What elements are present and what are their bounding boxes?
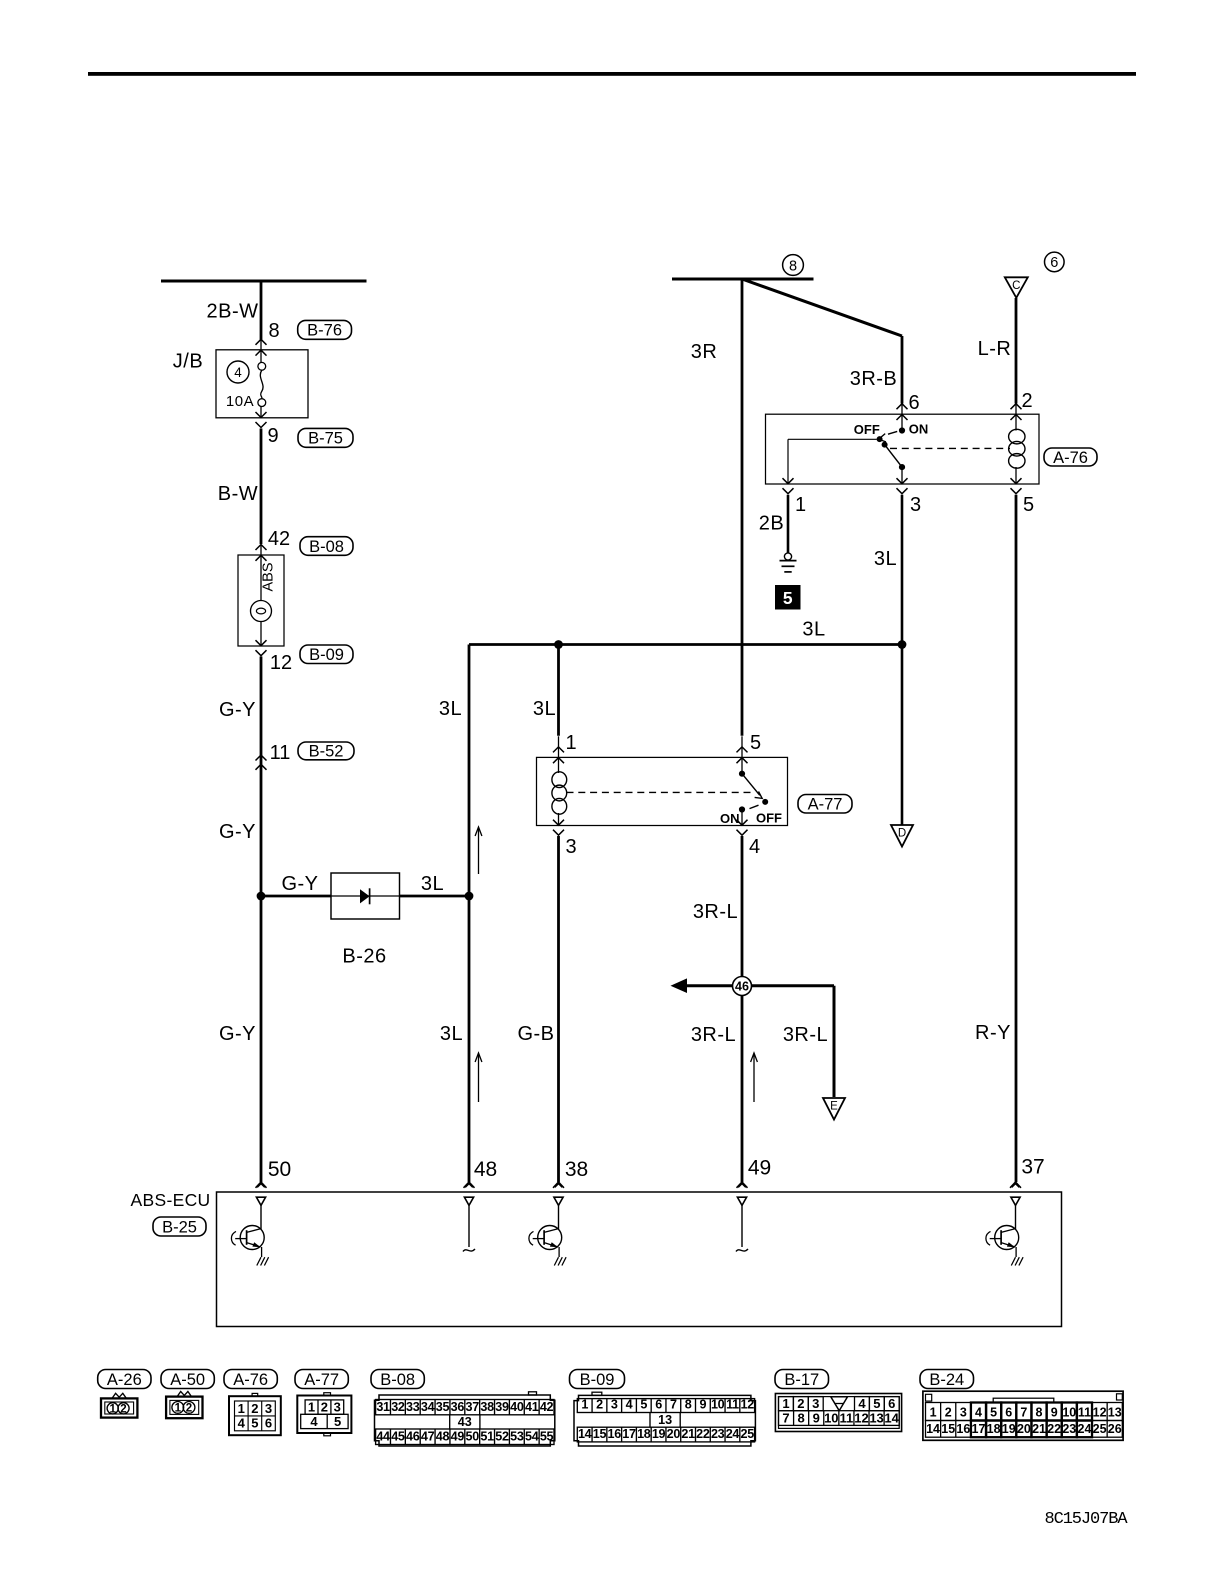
svg-text:B-09: B-09 — [580, 1371, 615, 1389]
svg-text:5: 5 — [1023, 494, 1034, 516]
svg-text:3: 3 — [565, 836, 576, 858]
svg-text:3L: 3L — [874, 548, 897, 570]
svg-text:B-08: B-08 — [380, 1371, 415, 1389]
svg-text:E: E — [830, 1101, 838, 1113]
svg-text:41: 41 — [525, 1400, 539, 1414]
svg-text:13: 13 — [1108, 1405, 1122, 1419]
svg-text:B-25: B-25 — [162, 1218, 197, 1236]
svg-text:3R-L: 3R-L — [691, 1024, 736, 1046]
svg-text:15: 15 — [941, 1422, 955, 1436]
svg-text:38: 38 — [480, 1400, 494, 1414]
svg-text:36: 36 — [451, 1400, 465, 1414]
svg-text:R-Y: R-Y — [975, 1022, 1011, 1044]
svg-text:2B: 2B — [759, 513, 784, 535]
svg-text:22: 22 — [1047, 1422, 1061, 1436]
svg-text:B-17: B-17 — [784, 1371, 819, 1389]
svg-text:L-R: L-R — [978, 338, 1012, 360]
svg-text:5: 5 — [873, 1396, 880, 1411]
svg-text:B-26: B-26 — [342, 946, 386, 968]
svg-text:11: 11 — [840, 1410, 854, 1425]
svg-text:4: 4 — [858, 1396, 866, 1411]
svg-text:43: 43 — [458, 1415, 472, 1429]
svg-text:G-Y: G-Y — [219, 1023, 256, 1045]
svg-text:3: 3 — [334, 1400, 341, 1415]
svg-text:48: 48 — [436, 1430, 450, 1444]
svg-text:B-76: B-76 — [307, 322, 342, 340]
svg-text:34: 34 — [421, 1400, 435, 1414]
svg-text:B-24: B-24 — [929, 1371, 964, 1389]
svg-text:4: 4 — [234, 365, 242, 380]
svg-text:G-Y: G-Y — [281, 873, 318, 895]
svg-text:G-Y: G-Y — [219, 699, 256, 721]
svg-text:39: 39 — [495, 1400, 509, 1414]
svg-text:3: 3 — [910, 494, 921, 516]
svg-text:31: 31 — [376, 1400, 390, 1414]
svg-text:12: 12 — [270, 652, 292, 674]
svg-text:49: 49 — [451, 1430, 465, 1444]
svg-text:45: 45 — [391, 1430, 405, 1444]
svg-text:1: 1 — [782, 1396, 789, 1411]
svg-text:18: 18 — [637, 1427, 651, 1441]
svg-text:B-08: B-08 — [309, 538, 344, 556]
svg-text:42: 42 — [268, 528, 290, 550]
svg-text:55: 55 — [540, 1430, 554, 1444]
svg-text:9: 9 — [1051, 1405, 1058, 1419]
svg-text:23: 23 — [1062, 1422, 1076, 1436]
svg-text:11: 11 — [270, 742, 291, 764]
svg-text:12: 12 — [741, 1398, 755, 1412]
svg-text:49: 49 — [748, 1157, 771, 1180]
svg-text:3: 3 — [812, 1396, 819, 1411]
svg-text:7: 7 — [1020, 1405, 1027, 1419]
svg-text:9: 9 — [813, 1410, 820, 1425]
svg-text:A-76: A-76 — [233, 1371, 268, 1389]
svg-text:8: 8 — [1036, 1405, 1043, 1419]
svg-text:ABS-ECU: ABS-ECU — [131, 1190, 211, 1210]
svg-text:10: 10 — [1062, 1405, 1076, 1419]
svg-text:8: 8 — [268, 320, 279, 342]
svg-text:2: 2 — [251, 1401, 258, 1416]
svg-text:4: 4 — [626, 1398, 633, 1412]
svg-text:A-77: A-77 — [808, 796, 843, 814]
svg-text:25: 25 — [1093, 1422, 1107, 1436]
svg-text:17: 17 — [622, 1427, 636, 1441]
svg-text:20: 20 — [667, 1427, 681, 1441]
svg-text:32: 32 — [391, 1400, 405, 1414]
svg-text:26: 26 — [1108, 1422, 1122, 1436]
svg-text:21: 21 — [1032, 1422, 1046, 1436]
svg-text:5: 5 — [251, 1416, 258, 1431]
svg-text:50: 50 — [268, 1158, 291, 1181]
svg-text:20: 20 — [1017, 1422, 1031, 1436]
svg-text:53: 53 — [510, 1430, 524, 1444]
svg-text:1: 1 — [565, 732, 576, 754]
svg-text:1: 1 — [581, 1398, 588, 1412]
svg-text:46: 46 — [406, 1430, 420, 1444]
svg-text:10: 10 — [824, 1410, 838, 1425]
svg-text:3L: 3L — [421, 873, 444, 895]
svg-text:C: C — [1012, 280, 1020, 292]
svg-text:12: 12 — [854, 1410, 868, 1425]
svg-text:3L: 3L — [440, 1023, 463, 1045]
svg-text:51: 51 — [480, 1430, 494, 1444]
svg-text:35: 35 — [436, 1400, 450, 1414]
svg-text:6: 6 — [908, 392, 919, 414]
svg-text:33: 33 — [406, 1400, 420, 1414]
svg-text:ABS: ABS — [261, 562, 277, 591]
svg-text:44: 44 — [376, 1430, 390, 1444]
svg-text:1: 1 — [930, 1405, 937, 1419]
svg-text:A-26: A-26 — [107, 1371, 142, 1389]
svg-text:1: 1 — [795, 494, 806, 516]
svg-text:8: 8 — [798, 1410, 805, 1425]
svg-text:16: 16 — [608, 1427, 622, 1441]
svg-text:2: 2 — [945, 1405, 952, 1419]
svg-text:37: 37 — [1021, 1156, 1044, 1179]
svg-text:1: 1 — [308, 1400, 315, 1415]
svg-text:3: 3 — [611, 1398, 618, 1412]
svg-text:8: 8 — [685, 1398, 692, 1412]
svg-text:ON: ON — [909, 422, 929, 437]
svg-text:14: 14 — [884, 1410, 899, 1425]
svg-text:9: 9 — [267, 425, 278, 447]
svg-text:14: 14 — [578, 1427, 592, 1441]
svg-text:J/B: J/B — [173, 351, 203, 373]
svg-text:5: 5 — [783, 588, 793, 608]
svg-text:A-77: A-77 — [304, 1371, 339, 1389]
svg-text:11: 11 — [726, 1398, 739, 1412]
svg-text:3R-B: 3R-B — [850, 368, 898, 390]
svg-text:19: 19 — [652, 1427, 666, 1441]
svg-text:18: 18 — [987, 1422, 1001, 1436]
svg-text:B-75: B-75 — [308, 430, 343, 448]
svg-text:54: 54 — [525, 1430, 539, 1444]
svg-text:14: 14 — [926, 1422, 940, 1436]
svg-text:3: 3 — [265, 1401, 272, 1416]
svg-text:6: 6 — [655, 1398, 662, 1412]
svg-text:17: 17 — [972, 1422, 986, 1436]
svg-text:13: 13 — [658, 1413, 672, 1427]
svg-text:OFF: OFF — [756, 811, 782, 826]
svg-text:B-W: B-W — [218, 483, 258, 505]
svg-text:8C15J07BA: 8C15J07BA — [1045, 1510, 1129, 1529]
svg-text:1: 1 — [109, 1403, 116, 1415]
svg-text:23: 23 — [711, 1427, 725, 1441]
svg-text:13: 13 — [869, 1410, 883, 1425]
svg-text:24: 24 — [726, 1427, 740, 1441]
svg-text:16: 16 — [956, 1422, 970, 1436]
svg-text:4: 4 — [310, 1414, 318, 1429]
svg-text:2: 2 — [321, 1400, 328, 1415]
svg-text:40: 40 — [510, 1400, 524, 1414]
svg-text:6: 6 — [1005, 1405, 1012, 1419]
svg-text:D: D — [898, 828, 906, 840]
svg-text:4: 4 — [749, 836, 760, 858]
svg-text:3R-L: 3R-L — [783, 1024, 828, 1046]
svg-text:37: 37 — [466, 1400, 480, 1414]
svg-text:52: 52 — [495, 1430, 509, 1444]
svg-text:G-B: G-B — [517, 1023, 554, 1045]
svg-text:3R-L: 3R-L — [693, 901, 738, 923]
svg-text:50: 50 — [466, 1430, 480, 1444]
svg-text:5: 5 — [334, 1414, 341, 1429]
svg-text:1: 1 — [175, 1403, 182, 1415]
svg-text:A-76: A-76 — [1053, 449, 1088, 467]
svg-text:5: 5 — [640, 1398, 647, 1412]
svg-text:B-09: B-09 — [309, 646, 344, 664]
svg-text:3: 3 — [960, 1405, 967, 1419]
svg-text:OFF: OFF — [854, 422, 880, 437]
svg-text:2: 2 — [186, 1403, 192, 1415]
svg-text:2: 2 — [120, 1403, 126, 1415]
svg-text:1: 1 — [238, 1401, 245, 1416]
svg-text:B-52: B-52 — [309, 743, 344, 761]
svg-text:3L: 3L — [802, 619, 825, 641]
svg-text:5: 5 — [750, 732, 761, 754]
svg-text:ON: ON — [720, 811, 740, 826]
svg-text:7: 7 — [670, 1398, 677, 1412]
svg-text:25: 25 — [741, 1427, 755, 1441]
svg-text:38: 38 — [565, 1158, 588, 1181]
svg-text:2: 2 — [797, 1396, 804, 1411]
svg-text:2: 2 — [596, 1398, 603, 1412]
svg-text:12: 12 — [1093, 1405, 1107, 1419]
svg-text:4: 4 — [238, 1416, 246, 1431]
svg-text:21: 21 — [681, 1427, 695, 1441]
svg-text:42: 42 — [540, 1400, 554, 1414]
svg-text:8: 8 — [789, 258, 797, 274]
svg-text:46: 46 — [735, 980, 749, 994]
svg-text:5: 5 — [990, 1405, 997, 1419]
svg-text:19: 19 — [1002, 1422, 1016, 1436]
svg-text:6: 6 — [1050, 255, 1058, 271]
svg-text:10A: 10A — [226, 393, 254, 410]
svg-text:A-50: A-50 — [170, 1371, 205, 1389]
svg-text:3L: 3L — [533, 698, 556, 720]
svg-text:7: 7 — [782, 1410, 789, 1425]
svg-text:3L: 3L — [439, 698, 462, 720]
svg-text:10: 10 — [711, 1398, 725, 1412]
svg-text:6: 6 — [265, 1416, 272, 1431]
svg-text:4: 4 — [975, 1405, 982, 1419]
svg-text:11: 11 — [1078, 1405, 1091, 1419]
svg-text:2B-W: 2B-W — [207, 301, 259, 323]
svg-text:22: 22 — [696, 1427, 710, 1441]
svg-text:24: 24 — [1078, 1422, 1092, 1436]
svg-text:48: 48 — [474, 1158, 497, 1181]
svg-text:47: 47 — [421, 1430, 435, 1444]
svg-text:6: 6 — [888, 1396, 895, 1411]
svg-text:3R: 3R — [691, 341, 718, 363]
svg-text:G-Y: G-Y — [219, 821, 256, 843]
svg-text:9: 9 — [700, 1398, 707, 1412]
svg-text:15: 15 — [593, 1427, 607, 1441]
svg-text:2: 2 — [1021, 390, 1032, 412]
